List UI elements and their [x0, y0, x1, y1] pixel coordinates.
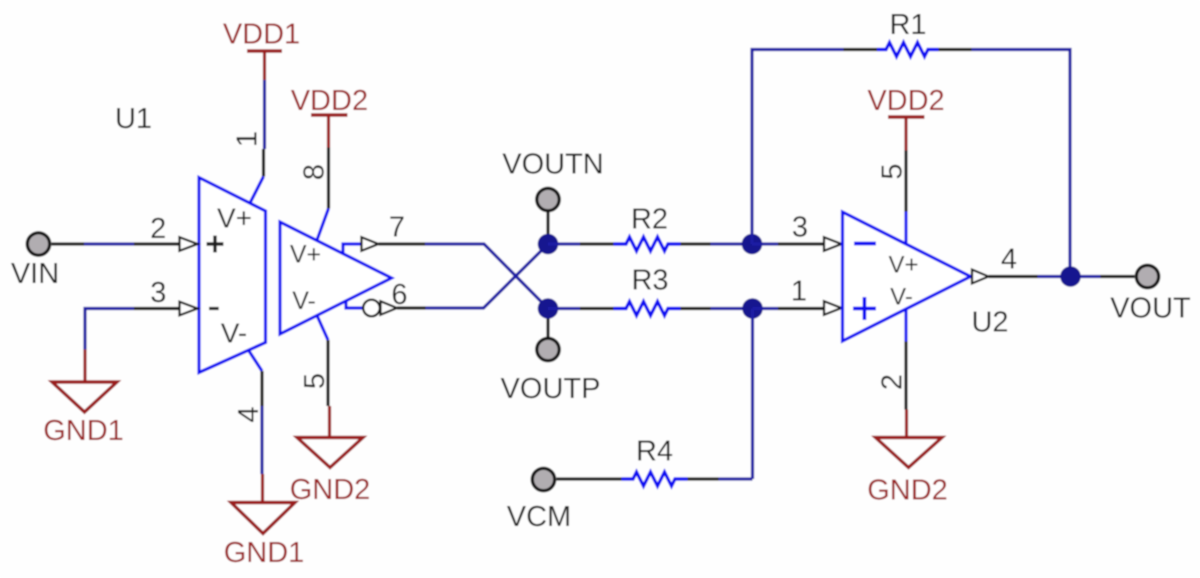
- wire VDD2 to U1 pin 8: [317, 148, 329, 241]
- node VOUTP junction: [538, 298, 559, 319]
- svg-text:4: 4: [1001, 244, 1017, 276]
- ground GND1 (left): [43, 350, 124, 448]
- pin 2 input arrow: [180, 237, 198, 251]
- svg-text:R3: R3: [631, 265, 668, 297]
- svg-text:7: 7: [389, 212, 405, 244]
- svg-text:VOUTN: VOUTN: [502, 149, 604, 181]
- svg-text:V+: V+: [888, 252, 918, 279]
- svg-text:5: 5: [299, 373, 331, 389]
- wire node to U2 pin 3: [752, 242, 826, 245]
- wire R4 node to VCM: [688, 309, 753, 480]
- svg-text:R1: R1: [889, 9, 926, 41]
- resistor R2: [548, 204, 752, 252]
- svg-text:U2: U2: [971, 307, 1008, 339]
- pin 6 output stub, bubble and arrow: [346, 300, 397, 317]
- svg-text:VOUT: VOUT: [1110, 293, 1191, 325]
- svg-text:VDD1: VDD1: [223, 19, 300, 51]
- power VDD1: [223, 19, 300, 81]
- svg-text:5: 5: [877, 163, 909, 179]
- pin 7 output stub and arrow: [343, 237, 379, 254]
- svg-text:GND2: GND2: [867, 475, 948, 507]
- svg-text:6: 6: [391, 279, 407, 311]
- pin 3 input arrow: [180, 302, 198, 316]
- svg-text:R2: R2: [631, 204, 668, 236]
- svg-text:V+: V+: [290, 241, 321, 269]
- terminal VIN: [11, 233, 59, 290]
- wire VIN to U1 pin 2: [52, 242, 182, 245]
- node VOUTN junction: [538, 234, 559, 255]
- terminal VOUTN: [502, 149, 604, 236]
- wire U1 pin 5 to GND2: [317, 316, 328, 407]
- svg-text:GND1: GND1: [43, 415, 124, 447]
- svg-text:VCM: VCM: [507, 501, 571, 533]
- wire VDD2 to U2 pin 5: [904, 151, 907, 245]
- svg-text:1: 1: [232, 131, 264, 147]
- svg-text:R4: R4: [636, 436, 673, 468]
- svg-text:1: 1: [791, 276, 807, 308]
- terminal VOUTP: [501, 318, 601, 405]
- svg-text:8: 8: [299, 164, 331, 180]
- svg-text:4: 4: [233, 406, 265, 422]
- resistor R3: [548, 265, 753, 316]
- svg-text:V-: V-: [292, 287, 316, 315]
- wire GND1 to U1 pin 3: [85, 309, 181, 350]
- node at R2/R1 junction: [742, 234, 763, 255]
- ground GND1 (bottom): [224, 474, 305, 569]
- svg-text:V+: V+: [217, 203, 252, 234]
- power VDD2 (right): [867, 85, 944, 151]
- node at R3/R4 junction: [742, 298, 763, 319]
- svg-text:3: 3: [792, 212, 808, 244]
- svg-text:V-: V-: [890, 284, 913, 311]
- svg-text:2: 2: [877, 374, 909, 390]
- wire U2 output to VOUT: [989, 275, 1135, 278]
- svg-text:VIN: VIN: [11, 258, 59, 290]
- wire pin 6 to node VOUTN (crossover): [397, 244, 548, 308]
- resistor R4: [557, 436, 688, 487]
- U2 output arrow: [972, 270, 989, 284]
- wire pin 7 to node VOUTP (crossover): [379, 244, 549, 309]
- op-amp U1 stage A (trapezoid body): [199, 178, 266, 373]
- op-amp U2 (triangle body): [843, 212, 971, 341]
- terminal VOUT: [1110, 265, 1191, 324]
- svg-text:GND1: GND1: [224, 537, 305, 569]
- feedback wire and resistor R1: [752, 9, 1070, 277]
- ground GND2 (right): [867, 410, 948, 507]
- svg-text:GND2: GND2: [290, 474, 371, 506]
- wire VDD1 to U1 pin 1: [250, 80, 265, 203]
- ground GND2 (left): [290, 406, 371, 506]
- terminal VCM: [507, 468, 571, 533]
- svg-text:3: 3: [150, 277, 166, 309]
- svg-text:VOUTP: VOUTP: [501, 373, 601, 405]
- node at output/feedback junction: [1060, 266, 1081, 287]
- svg-text:VDD2: VDD2: [291, 85, 368, 117]
- svg-text:V-: V-: [221, 318, 247, 349]
- svg-text:U1: U1: [115, 103, 152, 135]
- op-amp U1 stage B (triangle body): [280, 222, 392, 334]
- wire U1 pin 4 to GND1: [249, 351, 262, 474]
- power VDD2 (left): [291, 85, 368, 148]
- svg-text:2: 2: [150, 213, 166, 245]
- wire U2 pin 2 to GND2: [904, 309, 907, 410]
- U2 pin 1 input arrow: [824, 301, 842, 315]
- svg-text:VDD2: VDD2: [867, 85, 944, 117]
- wire node to U2 pin 1: [753, 307, 826, 310]
- U2 pin 3 input arrow: [824, 237, 842, 251]
